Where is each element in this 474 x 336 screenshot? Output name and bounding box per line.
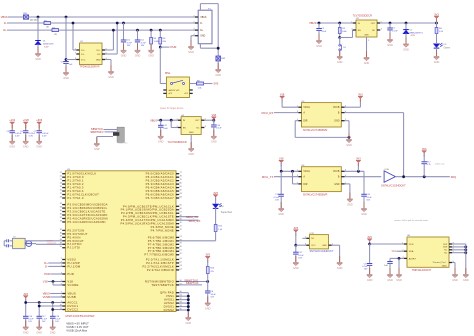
svg-text:MSP430F5529IPNR: MSP430F5529IPNR xyxy=(66,314,95,318)
svg-text:34: 34 xyxy=(60,206,62,208)
svg-text:VCC: VCC xyxy=(81,59,86,61)
svg-text:NC: NC xyxy=(311,238,315,240)
svg-text:77: 77 xyxy=(180,172,182,174)
svg-text:6.3V: 6.3V xyxy=(29,136,34,138)
svg-text:VUSB: VUSB xyxy=(67,295,76,299)
svg-text:DXN: DXN xyxy=(443,247,448,249)
svg-text:D+: D+ xyxy=(44,261,48,265)
svg-text:6.2V: 6.2V xyxy=(44,47,49,49)
svg-text:2.2uF: 2.2uF xyxy=(392,31,398,33)
svg-text:66: 66 xyxy=(180,208,182,210)
svg-text:D2-: D2- xyxy=(97,54,101,56)
svg-text:GND: GND xyxy=(50,331,56,334)
svg-text:GND: GND xyxy=(96,59,101,61)
svg-text:D+: D+ xyxy=(3,29,7,32)
svg-text:4.2V: 4.2V xyxy=(411,35,416,37)
svg-text:VCCB: VCCB xyxy=(333,107,340,109)
svg-text:3V3: 3V3 xyxy=(367,236,372,239)
svg-text:10uF: 10uF xyxy=(321,31,326,33)
svg-text:GND: GND xyxy=(189,132,194,134)
svg-text:80: 80 xyxy=(180,183,182,185)
svg-text:57: 57 xyxy=(180,236,182,238)
svg-text:V18: V18 xyxy=(43,280,48,284)
svg-text:VUSB 12mA Max: VUSB 12mA Max xyxy=(66,328,87,332)
svg-text:3V3: 3V3 xyxy=(356,158,361,161)
svg-text:GND: GND xyxy=(215,74,221,77)
svg-text:target_dev: target_dev xyxy=(118,141,129,144)
svg-text:52: 52 xyxy=(180,261,182,263)
svg-text:2: 2 xyxy=(194,21,195,23)
svg-text:GND: GND xyxy=(463,279,469,282)
svg-text:3V3: 3V3 xyxy=(205,254,210,257)
svg-text:Super Red: Super Red xyxy=(221,211,233,214)
svg-text:GND: GND xyxy=(346,144,352,147)
svg-text:3V3: 3V3 xyxy=(422,148,427,151)
svg-text:16V: 16V xyxy=(275,200,279,202)
svg-text:3: 3 xyxy=(194,29,195,31)
svg-text:1: 1 xyxy=(351,21,352,23)
svg-text:GND: GND xyxy=(205,307,211,310)
svg-text:P6.7/CB7/A7/DAC7: P6.7/CB7/A7/DAC7 xyxy=(146,196,175,200)
svg-text:DIR: DIR xyxy=(303,184,307,186)
svg-text:DIR: DIR xyxy=(303,121,307,123)
svg-text:28: 28 xyxy=(60,196,62,198)
svg-text:6.3V: 6.3V xyxy=(42,136,47,138)
svg-text:VCORE: VCORE xyxy=(67,283,78,287)
svg-text:GND: GND xyxy=(23,331,29,334)
svg-text:GND: GND xyxy=(316,45,322,48)
svg-text:MCU_TX: MCU_TX xyxy=(186,215,198,219)
svg-text:GND: GND xyxy=(36,331,42,334)
svg-text:power for target device: power for target device xyxy=(160,107,184,110)
svg-text:61: 61 xyxy=(180,250,182,252)
svg-text:MCU_RX: MCU_RX xyxy=(262,111,274,115)
svg-text:GND: GND xyxy=(148,55,154,58)
svg-text:+1V8: +1V8 xyxy=(23,119,30,122)
svg-text:ALERT: ALERT xyxy=(409,257,417,260)
svg-text:PUR: PUR xyxy=(44,272,50,276)
svg-text:SN74LVC1G34DCKT: SN74LVC1G34DCKT xyxy=(310,250,334,253)
svg-text:67: 67 xyxy=(180,212,182,214)
svg-text:PU.1/DM: PU.1/DM xyxy=(67,264,81,268)
svg-text:51: 51 xyxy=(180,258,182,260)
svg-text:GND: GND xyxy=(158,141,164,144)
svg-text:PUR: PUR xyxy=(67,272,74,276)
svg-text:65: 65 xyxy=(180,205,182,207)
svg-text:1-Wire use: 1-Wire use xyxy=(435,163,446,166)
svg-text:83: 83 xyxy=(180,193,182,195)
svg-text:VCCA: VCCA xyxy=(303,170,310,173)
svg-text:TLV70033DDCR: TLV70033DDCR xyxy=(353,13,372,17)
svg-text:37: 37 xyxy=(60,217,62,219)
svg-text:2: 2 xyxy=(75,52,76,54)
svg-text:uA/DFP uP5: uA/DFP uP5 xyxy=(168,89,180,92)
svg-text:DXP: DXP xyxy=(443,244,448,246)
svg-text:GND: GND xyxy=(364,35,369,37)
svg-text:16V: 16V xyxy=(364,269,368,271)
svg-text:Green: Green xyxy=(444,47,451,50)
svg-text:16V: 16V xyxy=(127,45,131,47)
svg-text:1: 1 xyxy=(61,258,62,260)
svg-text:22: 22 xyxy=(60,176,62,178)
svg-text:GND: GND xyxy=(434,61,440,64)
svg-text:54: 54 xyxy=(180,268,182,270)
svg-text:2: 2 xyxy=(368,40,369,42)
svg-text:79: 79 xyxy=(180,179,182,181)
svg-text:NC: NC xyxy=(372,30,376,32)
svg-text:GND: GND xyxy=(200,36,205,38)
svg-text:45: 45 xyxy=(60,229,62,231)
svg-text:P4.7/PM_NONE: P4.7/PM_NONE xyxy=(151,229,174,233)
svg-text:VBUS: VBUS xyxy=(1,16,8,19)
svg-text:BSL: BSL xyxy=(165,71,171,75)
svg-text:GND: GND xyxy=(452,279,458,282)
svg-text:38: 38 xyxy=(60,220,62,222)
svg-text:3: 3 xyxy=(75,58,76,60)
svg-text:47: 47 xyxy=(60,236,62,238)
svg-text:P2.3/TA2.0/BCDIR: P2.3/TA2.0/BCDIR xyxy=(147,268,174,272)
svg-text:GND: GND xyxy=(442,265,447,267)
svg-text:GND: GND xyxy=(186,322,192,325)
svg-text:connect still to gnd for paras: connect still to gnd for parasite mode xyxy=(394,219,429,222)
svg-text:46: 46 xyxy=(60,232,62,234)
svg-text:2.2uF: 2.2uF xyxy=(216,128,222,130)
svg-text:VCCA: VCCA xyxy=(303,106,310,109)
svg-text:27: 27 xyxy=(60,193,62,195)
svg-text:VBUS = 5V INPUT: VBUS = 5V INPUT xyxy=(66,321,89,325)
svg-text:3V3: 3V3 xyxy=(213,82,218,86)
svg-text:16V: 16V xyxy=(298,257,302,259)
svg-text:GND: GND xyxy=(188,51,194,54)
svg-text:60: 60 xyxy=(180,246,182,248)
svg-text:72: 72 xyxy=(180,229,182,231)
svg-text:SN74LVC1T45DBVR: SN74LVC1T45DBVR xyxy=(303,192,328,196)
svg-text:SBWTCK: SBWTCK xyxy=(186,281,199,285)
svg-text:SDQ: SDQ xyxy=(451,176,456,179)
svg-text:GND: GND xyxy=(347,203,353,206)
svg-text:SN74LVC1G34DCKT: SN74LVC1G34DCKT xyxy=(381,184,406,188)
svg-text:53: 53 xyxy=(180,265,182,267)
svg-text:220 ohm: 220 ohm xyxy=(30,19,38,21)
svg-text:16V: 16V xyxy=(141,45,145,47)
svg-text:P7.7/TB0CLK/BCM5: P7.7/TB0CLK/BCM5 xyxy=(144,253,174,257)
svg-text:MCU_TX: MCU_TX xyxy=(262,175,274,179)
svg-text:50: 50 xyxy=(60,246,62,248)
svg-text:V18: V18 xyxy=(212,114,217,117)
svg-text:GND: GND xyxy=(337,267,343,270)
svg-text:GND: GND xyxy=(108,76,114,79)
svg-text:TLV70018DDCR: TLV70018DDCR xyxy=(167,140,186,144)
svg-text:OUT: OUT xyxy=(371,23,376,25)
svg-text:SDA: SDA xyxy=(391,250,396,253)
svg-text:U7A: U7A xyxy=(385,168,390,171)
svg-text:D-: D- xyxy=(45,264,48,268)
svg-text:GND: GND xyxy=(387,279,393,282)
svg-text:3: 3 xyxy=(176,126,177,128)
svg-text:23: 23 xyxy=(60,179,62,181)
svg-text:4: 4 xyxy=(205,126,206,128)
svg-text:82: 82 xyxy=(180,189,182,191)
svg-text:+3V3: +3V3 xyxy=(36,119,43,122)
svg-text:3V3: 3V3 xyxy=(23,293,28,296)
svg-text:PJ.1/TDI: PJ.1/TDI xyxy=(67,246,80,250)
svg-text:DVCC2: DVCC2 xyxy=(67,307,78,311)
svg-text:VCC: VCC xyxy=(311,245,316,247)
svg-text:25: 25 xyxy=(60,186,62,188)
svg-text:GND: GND xyxy=(322,245,327,247)
svg-text:P5.1/UCA0RX/UCA0SOMI: P5.1/UCA0RX/UCA0SOMI xyxy=(67,220,105,224)
svg-text:GND: GND xyxy=(23,146,29,149)
svg-text:59: 59 xyxy=(180,243,182,245)
svg-text:1: 1 xyxy=(305,237,306,239)
svg-text:SBWTDIO: SBWTDIO xyxy=(90,130,103,134)
svg-text:D-: D- xyxy=(200,23,203,25)
svg-text:GND: GND xyxy=(121,55,127,58)
svg-text:10uF: 10uF xyxy=(163,128,168,130)
svg-text:PUR: PUR xyxy=(171,45,177,49)
svg-text:16V: 16V xyxy=(366,200,370,202)
svg-text:EN: EN xyxy=(358,30,361,32)
svg-text:3V3: 3V3 xyxy=(294,227,299,230)
svg-text:GND: GND xyxy=(334,184,339,186)
svg-text:D-: D- xyxy=(4,22,7,25)
svg-text:GND: GND xyxy=(334,121,339,123)
svg-text:GND: GND xyxy=(135,55,141,58)
svg-text:GND: GND xyxy=(63,77,69,80)
svg-text:VUSB: VUSB xyxy=(43,295,51,299)
svg-text:4.7k: 4.7k xyxy=(427,164,431,166)
svg-text:3V3: 3V3 xyxy=(434,13,439,16)
svg-text:Thermal_Pad: Thermal_Pad xyxy=(432,261,446,264)
svg-text:3V3: 3V3 xyxy=(358,93,363,96)
svg-text:GND: GND xyxy=(396,279,402,282)
svg-text:4: 4 xyxy=(381,28,382,30)
svg-text:GND: GND xyxy=(403,48,409,51)
svg-text:TEST/SBWTCK: TEST/SBWTCK xyxy=(151,283,174,287)
svg-text:GND: GND xyxy=(9,146,15,149)
svg-text:GND: GND xyxy=(293,267,299,270)
svg-text:GND: GND xyxy=(211,141,217,144)
svg-text:VBUS: VBUS xyxy=(43,292,51,296)
svg-text:26: 26 xyxy=(60,189,62,191)
svg-text:GND: GND xyxy=(387,44,393,47)
svg-text:U7B: U7B xyxy=(310,233,315,235)
svg-text:V18: V18 xyxy=(279,158,284,161)
svg-text:33: 33 xyxy=(60,203,62,205)
svg-text:62: 62 xyxy=(180,253,182,255)
svg-text:3V3: 3V3 xyxy=(213,192,218,195)
svg-text:VBUS: VBUS xyxy=(200,17,207,19)
svg-text:GND: GND xyxy=(364,62,370,65)
svg-text:1: 1 xyxy=(176,119,177,121)
svg-text:70: 70 xyxy=(180,222,182,224)
svg-text:AZ23C6V8: AZ23C6V8 xyxy=(43,42,54,45)
svg-text:71: 71 xyxy=(180,226,182,228)
svg-text:D1-: D1- xyxy=(81,54,85,56)
svg-text:GND: GND xyxy=(35,58,41,61)
svg-text:MMSZ4678T1: MMSZ4678T1 xyxy=(410,32,424,34)
svg-text:GND: GND xyxy=(188,153,194,156)
svg-text:DVSS2: DVSS2 xyxy=(164,308,175,312)
svg-text:GND: GND xyxy=(361,213,367,216)
svg-text:TPD4S012DRYR: TPD4S012DRYR xyxy=(80,65,100,69)
svg-text:1: 1 xyxy=(194,15,195,17)
svg-text:XT2OUT: XT2OUT xyxy=(47,243,56,245)
svg-text:SN74LVC1T45DBVR: SN74LVC1T45DBVR xyxy=(303,128,328,132)
svg-text:3: 3 xyxy=(305,244,306,246)
svg-text:SDA: SDA xyxy=(409,250,414,253)
svg-text:81: 81 xyxy=(180,186,182,188)
svg-text:VDD: VDD xyxy=(409,244,414,246)
svg-text:P1.7/TA1.0: P1.7/TA1.0 xyxy=(67,196,83,200)
svg-text:GND: GND xyxy=(278,213,284,216)
svg-text:EN: EN xyxy=(183,127,186,129)
svg-text:1nF: 1nF xyxy=(384,265,388,267)
svg-text:21: 21 xyxy=(60,172,62,174)
svg-text:24: 24 xyxy=(60,183,62,185)
svg-text:V18: V18 xyxy=(280,93,285,96)
svg-text:GND: GND xyxy=(337,61,343,64)
svg-text:78: 78 xyxy=(180,176,182,178)
svg-text:GND: GND xyxy=(36,146,42,149)
svg-text:VCCB: VCCB xyxy=(333,171,340,173)
svg-text:6.3V: 6.3V xyxy=(15,136,20,138)
svg-text:GND: GND xyxy=(94,148,100,151)
svg-text:GND: GND xyxy=(367,279,373,282)
svg-text:XT2IN: XT2IN xyxy=(47,240,54,242)
svg-text:36: 36 xyxy=(60,213,62,215)
svg-text:OUT: OUT xyxy=(195,120,200,122)
svg-text:35: 35 xyxy=(60,210,62,212)
svg-text:TMP421AIDCNT: TMP421AIDCNT xyxy=(412,268,432,272)
svg-text:VBUS: VBUS xyxy=(150,120,157,123)
svg-text:VBUS: VBUS xyxy=(309,22,316,25)
svg-text:+1V2: +1V2 xyxy=(9,119,16,122)
svg-text:VUSB = 3.3V OUT: VUSB = 3.3V OUT xyxy=(66,325,89,329)
svg-text:84: 84 xyxy=(180,196,182,198)
svg-text:3: 3 xyxy=(351,28,352,30)
svg-text:NC: NC xyxy=(196,127,200,129)
svg-text:MCU_RX: MCU_RX xyxy=(189,219,201,223)
svg-text:10V: 10V xyxy=(210,296,214,298)
